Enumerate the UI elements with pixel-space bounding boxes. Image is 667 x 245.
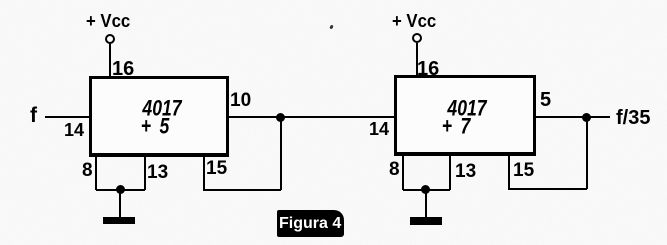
wire pin10 U1 to pin14 U2: [229, 116, 394, 118]
junction dot ground U1: [116, 185, 125, 194]
IC U2 value label +7: [394, 116, 519, 138]
wire to ground U1: [119, 189, 121, 217]
wire pin13 U2 down: [449, 156, 451, 190]
wire node A down: [280, 117, 282, 190]
pin label 16 (U2): [417, 59, 439, 79]
wire pin13 U1 down: [144, 157, 146, 190]
node +Vcc label (U1): [86, 12, 130, 30]
pin label 15 (U2): [513, 161, 534, 180]
wire pin15 U1 down: [203, 157, 205, 190]
pin label 8 (U1): [82, 161, 93, 180]
junction dot ground U2: [421, 185, 430, 194]
ground symbol U1: [103, 217, 135, 224]
pin label 16 (U1): [112, 59, 134, 79]
pin label 14 (U2): [369, 120, 389, 138]
IC U2 4017 body: [394, 75, 536, 156]
node +Vcc label (U2): [392, 12, 436, 30]
wire pin8-pin13 U2: [403, 189, 450, 191]
IC U1 value label 4017: [100, 98, 223, 120]
IC U1 4017 body: [89, 76, 229, 157]
wire node B down: [586, 117, 588, 189]
pin label 14 (U1): [64, 121, 84, 139]
wire to ground U2: [425, 189, 427, 217]
pin label 5 (U2): [540, 90, 551, 110]
wire f to pin14 U1: [45, 116, 89, 118]
wire loop bottom U2: [508, 188, 587, 190]
pin label 8 (U2): [389, 160, 400, 179]
ink speck: [329, 25, 333, 30]
IC U1 value label +5: [93, 116, 216, 138]
pin label 15 (U1): [206, 159, 227, 178]
wire Vcc to pin16 U1: [109, 43, 111, 76]
wire pin15 U2 down: [508, 156, 510, 189]
wire pin5 U2 to output: [536, 116, 610, 118]
pin label 13 (U1): [147, 163, 168, 182]
Vcc terminal circle (U2): [412, 33, 422, 43]
wire pin8-pin13 U1: [96, 189, 145, 191]
pin label 13 (U2): [455, 162, 476, 181]
wire Vcc to pin16 U2: [416, 43, 418, 76]
node f/35 output label: [616, 108, 650, 128]
wire loop bottom U1: [203, 189, 281, 191]
junction node A: [276, 113, 285, 122]
junction node B: [582, 113, 591, 122]
node f input label: [30, 105, 37, 126]
wire pin8 U1 down: [95, 157, 97, 190]
Vcc terminal circle (U1): [105, 34, 115, 44]
ground symbol U2: [410, 217, 442, 225]
figure caption Figura 4: [277, 210, 344, 237]
wire pin8 U2 down: [402, 156, 404, 190]
pin label 10 (U1): [230, 91, 251, 110]
IC U2 value label 4017: [405, 98, 530, 120]
